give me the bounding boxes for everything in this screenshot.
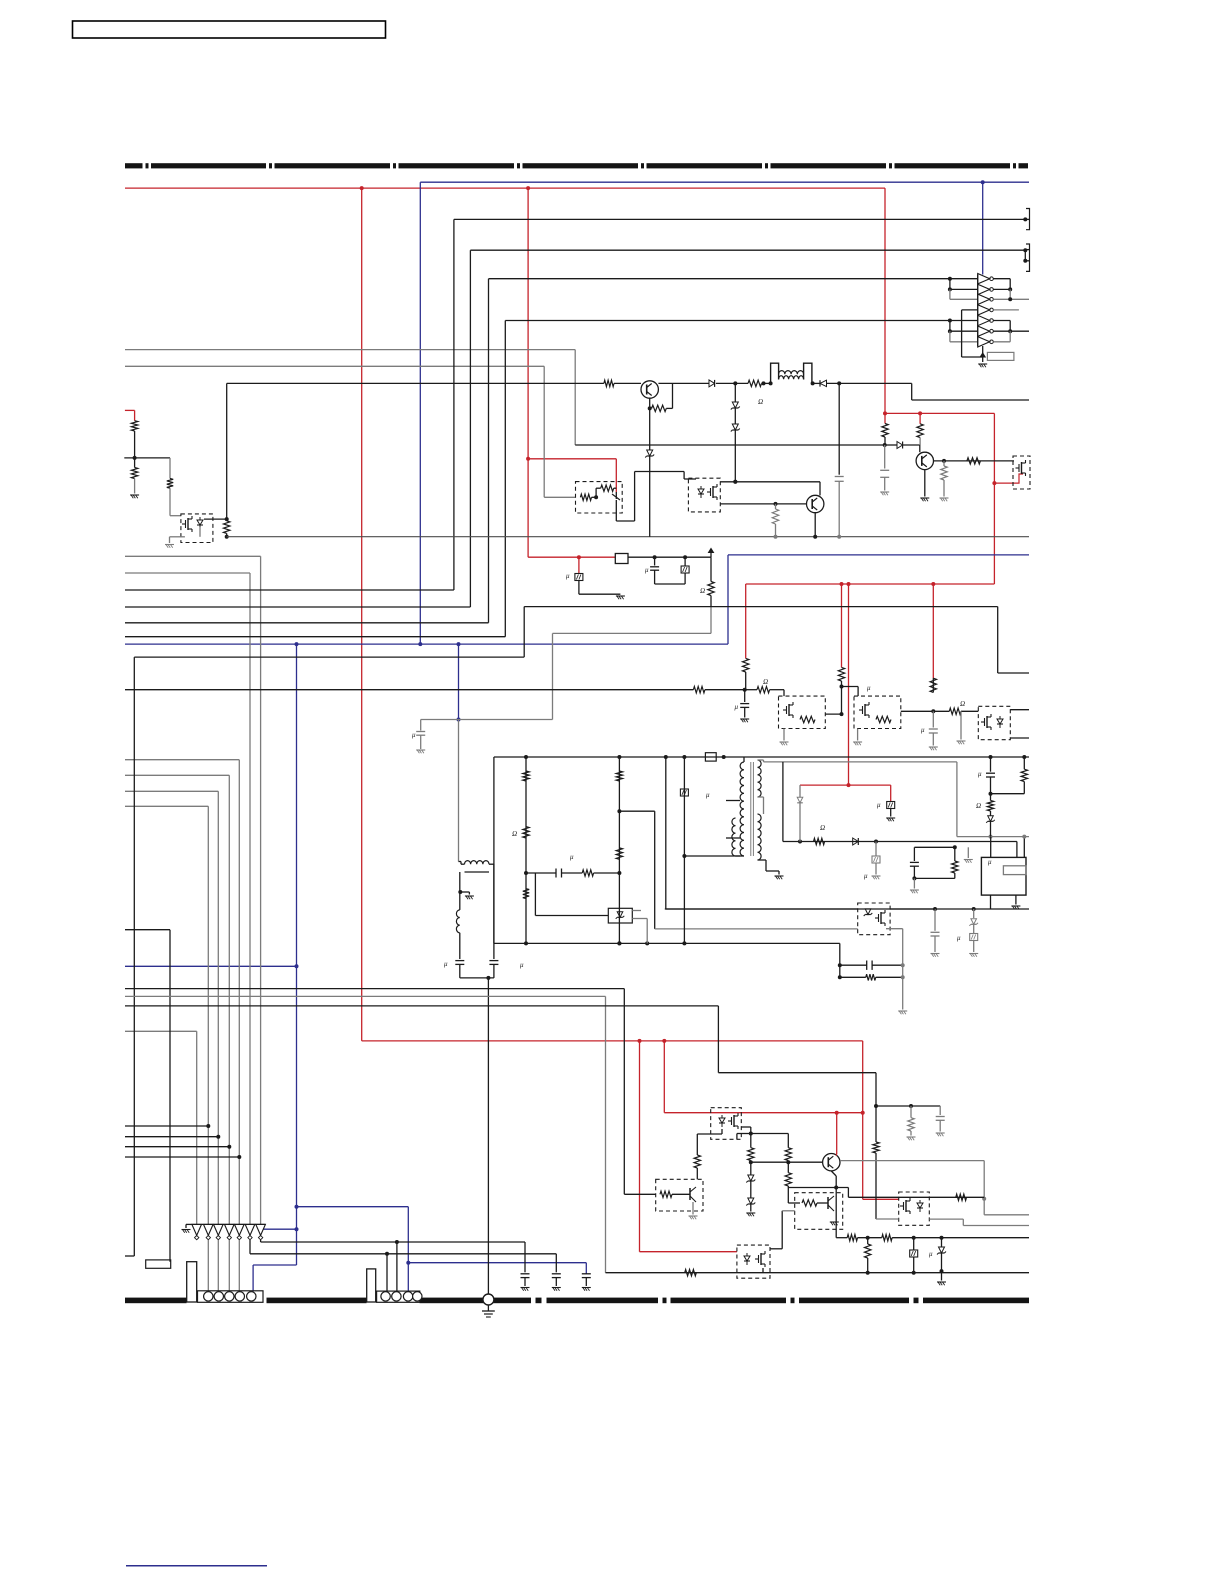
svg-text:μ: μ — [988, 858, 992, 866]
svg-text:Ω: Ω — [820, 824, 825, 832]
svg-text:μ: μ — [929, 1250, 933, 1258]
svg-text:μ: μ — [921, 726, 925, 734]
svg-text:Ω: Ω — [976, 802, 981, 810]
svg-text:μ: μ — [735, 703, 739, 711]
svg-text:μ: μ — [444, 960, 448, 968]
svg-text:μ: μ — [566, 572, 570, 580]
svg-text:μ: μ — [864, 872, 868, 880]
svg-text:μ: μ — [877, 801, 881, 809]
svg-text:μ: μ — [570, 853, 574, 861]
svg-text:Ω: Ω — [758, 398, 763, 406]
svg-text:Ω: Ω — [700, 587, 705, 595]
svg-text:μ: μ — [978, 770, 982, 778]
svg-text:μ: μ — [645, 566, 649, 574]
svg-text:Ω: Ω — [960, 700, 965, 708]
svg-text:μ: μ — [867, 684, 871, 692]
svg-text:μ: μ — [412, 731, 416, 739]
svg-text:μ: μ — [957, 934, 961, 942]
svg-text:μ: μ — [520, 961, 524, 969]
svg-text:Ω: Ω — [512, 830, 517, 838]
svg-text:μ: μ — [706, 791, 710, 799]
svg-text:Ω: Ω — [763, 678, 768, 686]
